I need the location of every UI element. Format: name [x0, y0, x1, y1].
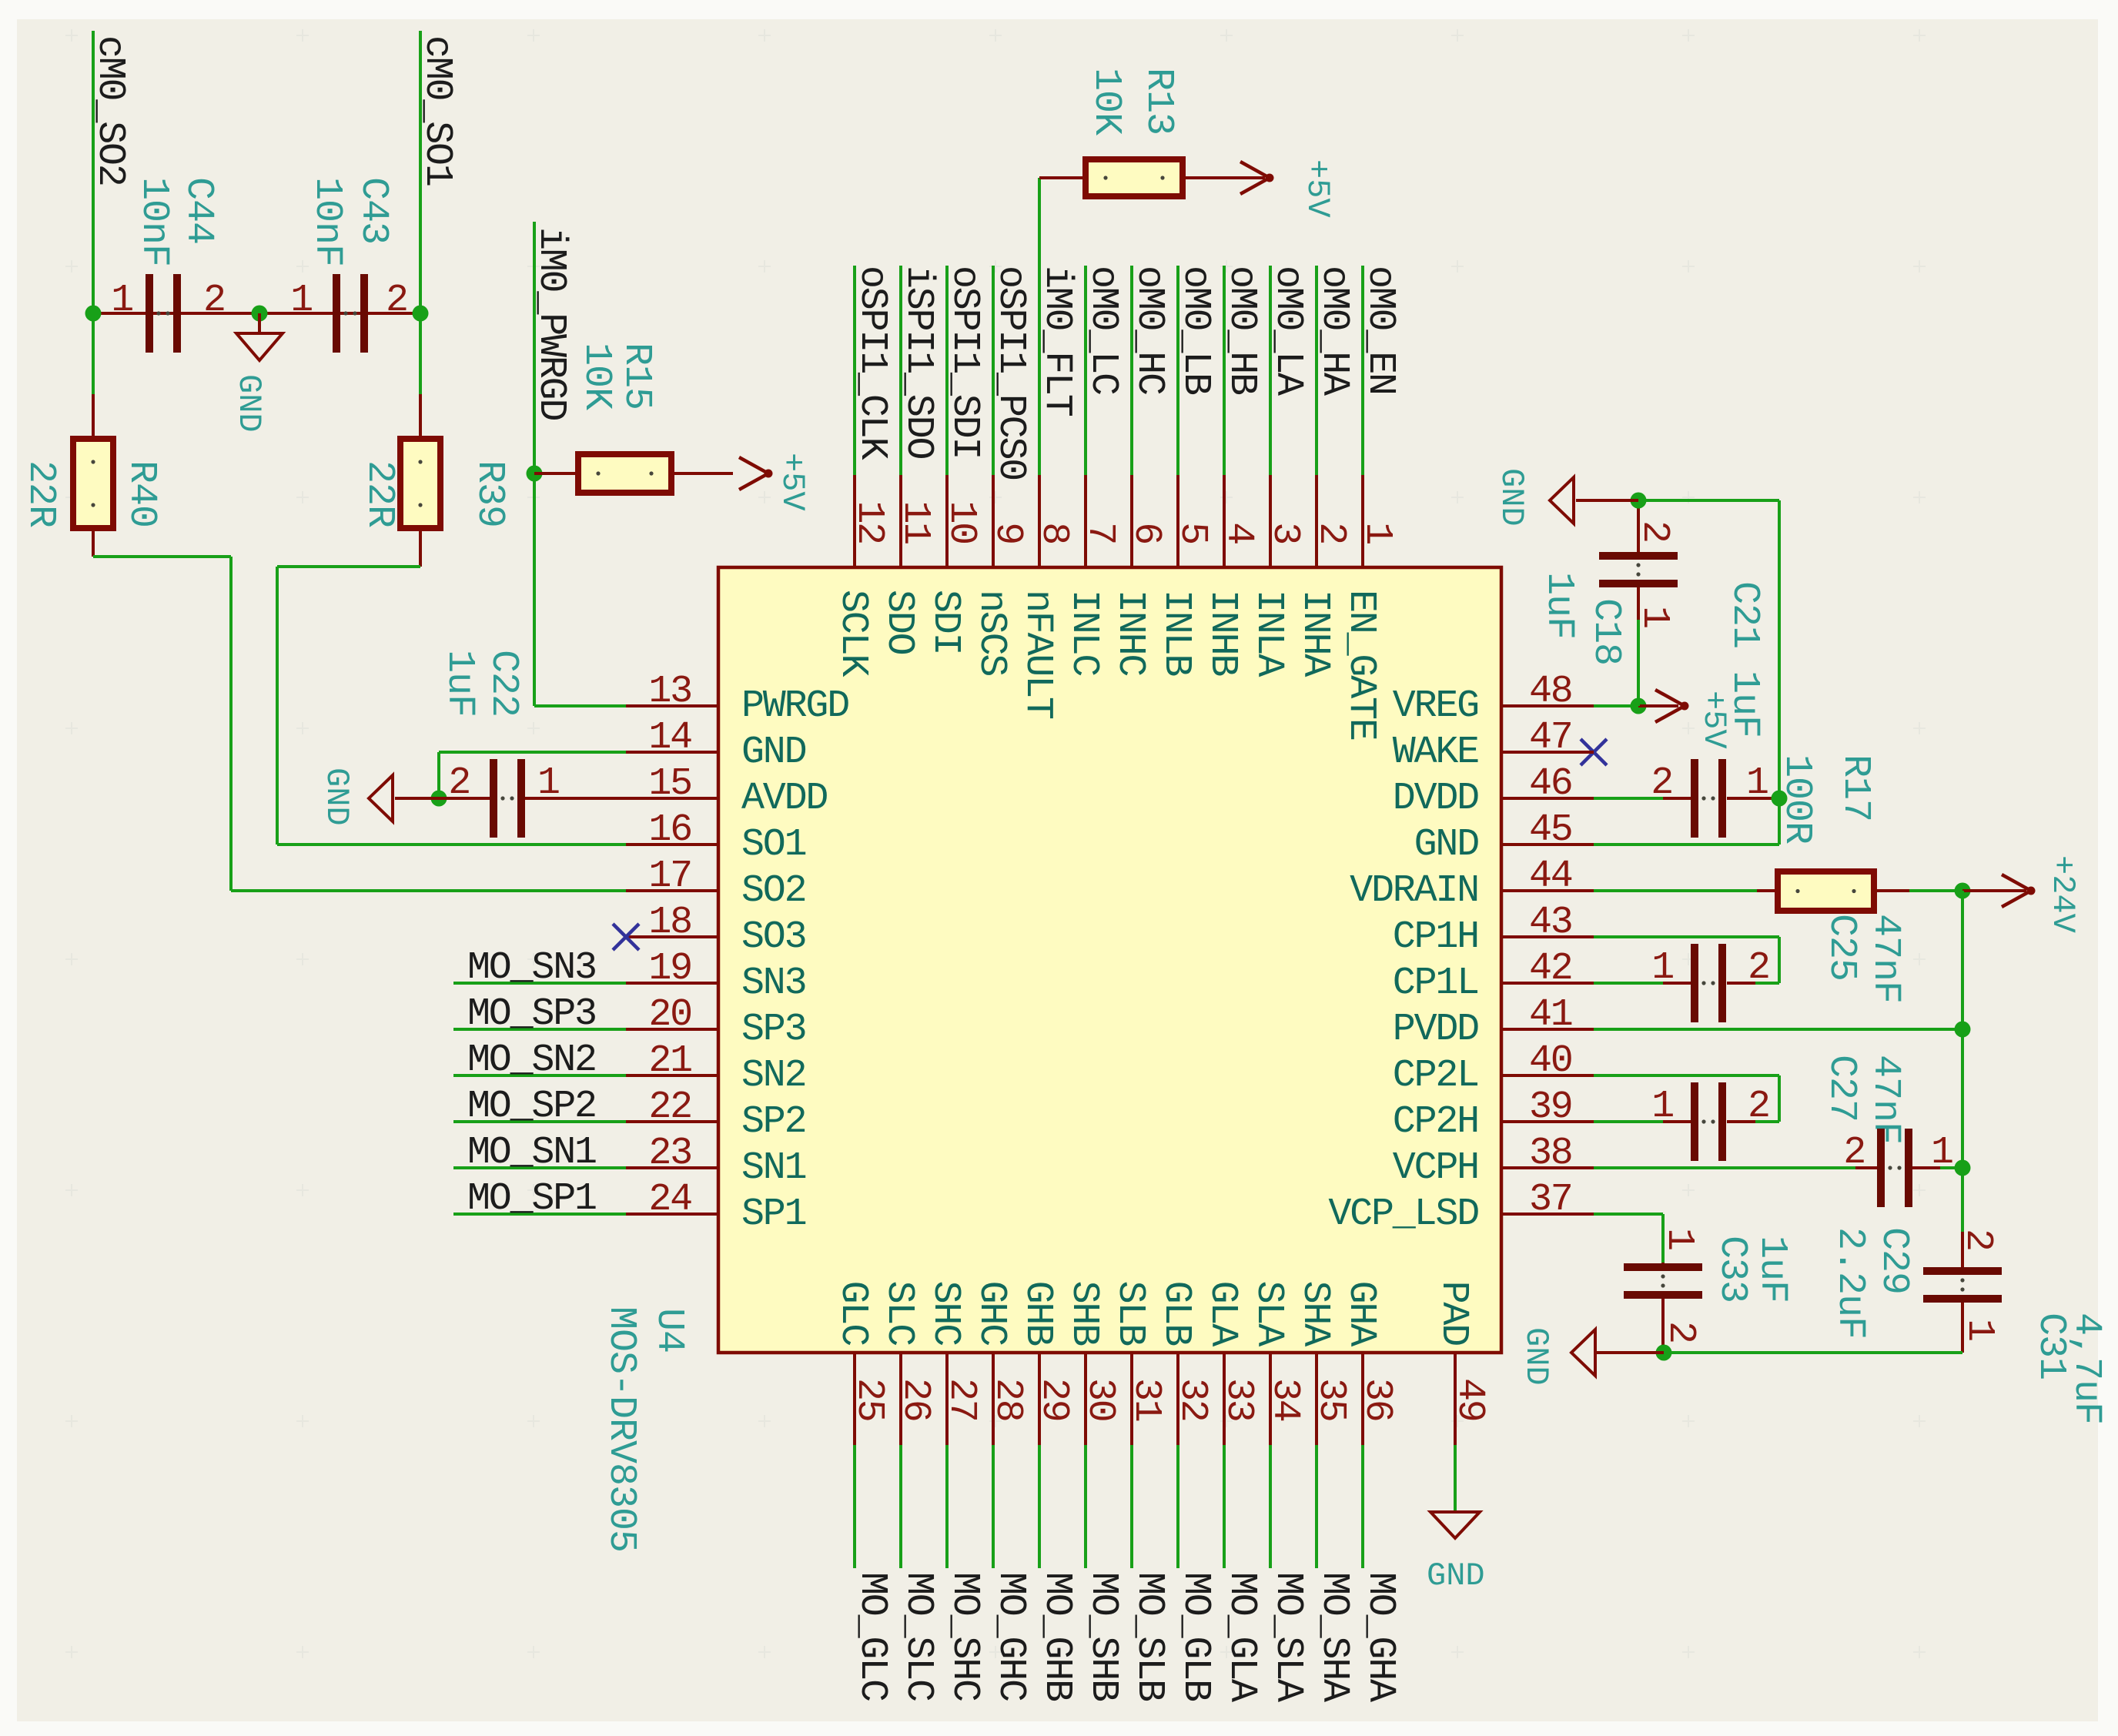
- pin 27 SHC of U4: [923, 1281, 983, 1445]
- svg-text:MO_SN1: MO_SN1: [467, 1131, 596, 1175]
- pin 48 VREG of U4: [1393, 670, 1594, 728]
- wire net MO_SHA to pin 35: [1315, 1445, 1318, 1568]
- svg-text:SO2: SO2: [741, 869, 805, 913]
- svg-text:MO_SLB: MO_SLB: [1127, 1572, 1171, 1701]
- svg-text:R13: R13: [1136, 68, 1180, 135]
- junction GND / C18: [1631, 493, 1647, 509]
- svg-text:2: 2: [1748, 1085, 1769, 1129]
- wire GND rail to pin 45: [1594, 499, 1781, 846]
- pin 46 DVDD of U4: [1393, 762, 1594, 821]
- svg-text:MO_SLA: MO_SLA: [1266, 1572, 1310, 1702]
- pin 19 SN3 of U4: [626, 947, 805, 1005]
- pin 32 GLB of U4: [1154, 1281, 1214, 1445]
- wire net MO_SN1 to pin 23: [453, 1166, 626, 1169]
- svg-text:4,7uF: 4,7uF: [2064, 1313, 2108, 1424]
- svg-text:33: 33: [1216, 1378, 1260, 1421]
- svg-text:CP2L: CP2L: [1393, 1054, 1478, 1098]
- junction C33 / GND rail: [1656, 1345, 1672, 1361]
- svg-text:30: 30: [1078, 1378, 1122, 1421]
- wire pin 44 VDRAIN to R17: [1594, 889, 1757, 892]
- svg-text:24: 24: [648, 1178, 691, 1222]
- svg-text:1: 1: [1632, 606, 1676, 627]
- svg-text:1: 1: [1355, 522, 1399, 544]
- svg-text:1: 1: [290, 279, 312, 323]
- capacitor C43: [333, 274, 368, 353]
- svg-text:MO_GLB: MO_GLB: [1173, 1572, 1217, 1701]
- junction +24V / VDRAIN: [1955, 883, 1971, 899]
- svg-text:C21 1uF: C21 1uF: [1722, 581, 1766, 738]
- wire lead R13 right: [1183, 176, 1265, 179]
- wire net iSPI1_SDO to pin 11: [899, 266, 902, 475]
- pin 25 GLC of U4: [831, 1281, 891, 1445]
- svg-text:100R: 100R: [1775, 754, 1819, 844]
- svg-text:44: 44: [1529, 855, 1572, 898]
- wire lead R17 right: [1874, 889, 1909, 892]
- svg-text:3: 3: [1263, 522, 1307, 544]
- svg-text:10K: 10K: [574, 343, 618, 410]
- svg-text:48: 48: [1529, 670, 1572, 714]
- wire +24V rail down: [1961, 891, 1964, 1232]
- svg-text:VDRAIN: VDRAIN: [1350, 869, 1478, 913]
- svg-text:GND: GND: [1414, 823, 1479, 867]
- svg-text:MO_SP2: MO_SP2: [467, 1085, 596, 1129]
- svg-text:+24V: +24V: [2044, 855, 2081, 933]
- svg-text:C22: C22: [481, 650, 525, 717]
- power symbol +5V at R13: [1240, 159, 1336, 218]
- svg-text:14: 14: [648, 716, 691, 760]
- svg-text:2: 2: [448, 761, 470, 805]
- svg-text:1uF: 1uF: [1750, 1236, 1794, 1303]
- svg-text:C18: C18: [1584, 598, 1628, 665]
- power symbol GND at C22: [318, 768, 439, 826]
- pin 21 SN2 of U4: [626, 1039, 805, 1098]
- capacitor C25: [1594, 944, 1779, 1022]
- svg-text:VREG: VREG: [1393, 684, 1478, 728]
- svg-text:R15: R15: [614, 343, 658, 410]
- wire net oM0_LA to pin 3: [1269, 266, 1272, 475]
- svg-text:SDI: SDI: [923, 590, 967, 654]
- pin 10 SDI of U4: [923, 475, 983, 654]
- wire net MO_GLB to pin 32: [1176, 1445, 1179, 1568]
- junction cM0_SO2 / C44: [85, 306, 102, 322]
- svg-text:SHC: SHC: [923, 1281, 967, 1346]
- pin 16 SO1 of U4: [626, 808, 806, 867]
- pin 24 SP1 of U4: [626, 1178, 806, 1236]
- junction GND / C22: [431, 791, 447, 807]
- svg-text:MO_SHB: MO_SHB: [1081, 1572, 1125, 1701]
- svg-text:iM0_FLT: iM0_FLT: [1035, 266, 1079, 416]
- pin 34 SLA of U4: [1246, 1281, 1307, 1445]
- pin 38 VCPH of U4: [1393, 1132, 1594, 1190]
- pin 22 SP2 of U4: [626, 1085, 805, 1144]
- svg-text:MO_SLC: MO_SLC: [896, 1572, 940, 1701]
- svg-text:SN3: SN3: [741, 962, 805, 1005]
- resistor R39: [400, 439, 440, 528]
- svg-text:PWRGD: PWRGD: [741, 684, 848, 728]
- svg-text:49: 49: [1447, 1378, 1491, 1421]
- svg-text:oM0_HA: oM0_HA: [1312, 266, 1356, 396]
- wire cM0_SO1 vertical: [419, 31, 422, 394]
- svg-text:2.2uF: 2.2uF: [1828, 1227, 1872, 1339]
- junction C44 / C43 / GND: [252, 306, 268, 322]
- svg-text:SLC: SLC: [877, 1281, 921, 1346]
- svg-text:29: 29: [1032, 1378, 1076, 1421]
- pin 17 SO2 of U4: [626, 855, 805, 913]
- pin 29 GHB of U4: [1016, 1281, 1076, 1445]
- svg-text:36: 36: [1355, 1378, 1399, 1421]
- svg-text:34: 34: [1263, 1378, 1307, 1421]
- svg-text:1: 1: [1651, 946, 1673, 990]
- junction +24V rail / PVDD: [1955, 1022, 1971, 1038]
- svg-text:26: 26: [893, 1378, 937, 1421]
- svg-text:INHA: INHA: [1293, 590, 1337, 677]
- svg-text:15: 15: [648, 762, 691, 806]
- wire net oM0_LB to pin 5: [1176, 266, 1179, 475]
- svg-text:19: 19: [648, 947, 691, 991]
- svg-text:oM0_LB: oM0_LB: [1173, 266, 1217, 395]
- wire pin 49 to GND: [1454, 1445, 1457, 1512]
- svg-text:CP2H: CP2H: [1393, 1100, 1478, 1144]
- svg-text:12: 12: [847, 500, 891, 544]
- svg-text:2: 2: [1658, 1321, 1702, 1343]
- svg-text:GND: GND: [230, 374, 267, 433]
- resistor R13: [1086, 159, 1183, 196]
- pin 44 VDRAIN of U4: [1350, 855, 1594, 913]
- svg-text:oSPI1_CLK: oSPI1_CLK: [850, 266, 894, 460]
- svg-text:INLA: INLA: [1246, 590, 1290, 677]
- pin 40 CP2L of U4: [1393, 1039, 1594, 1098]
- svg-text:WAKE: WAKE: [1393, 731, 1478, 774]
- junction iM0_PWRGD / R15: [527, 466, 543, 482]
- svg-text:10nF: 10nF: [305, 177, 349, 266]
- svg-text:1: 1: [537, 761, 559, 805]
- svg-text:SN1: SN1: [741, 1146, 806, 1190]
- wire net MO_SP3 to pin 20: [453, 1028, 626, 1031]
- svg-text:GND: GND: [1427, 1557, 1485, 1594]
- svg-text:SLA: SLA: [1246, 1281, 1290, 1347]
- svg-text:20: 20: [648, 993, 691, 1037]
- pin 47 WAKE of U4: [1393, 716, 1594, 774]
- svg-text:6: 6: [1124, 522, 1168, 544]
- wire net MO_SP2 to pin 22: [453, 1120, 626, 1123]
- svg-text:39: 39: [1529, 1085, 1572, 1129]
- svg-text:2: 2: [386, 279, 407, 323]
- svg-text:+5V: +5V: [774, 453, 811, 511]
- svg-text:GHA: GHA: [1339, 1281, 1383, 1347]
- svg-text:2: 2: [1843, 1131, 1865, 1175]
- svg-text:SP2: SP2: [741, 1100, 805, 1144]
- svg-text:MO_SN2: MO_SN2: [467, 1039, 596, 1082]
- pin 20 SP3 of U4: [626, 993, 805, 1052]
- svg-text:oSPI1_SDI: oSPI1_SDI: [942, 266, 986, 458]
- svg-text:4: 4: [1216, 522, 1260, 544]
- resistor R17: [1778, 871, 1874, 911]
- pin 31 SLB of U4: [1108, 1281, 1168, 1445]
- svg-text:MO_SP3: MO_SP3: [467, 992, 596, 1036]
- power symbol GND at PAD: [1427, 1512, 1485, 1594]
- svg-text:VCPH: VCPH: [1393, 1146, 1478, 1190]
- pin 36 GHA of U4: [1339, 1281, 1399, 1445]
- svg-text:INHB: INHB: [1200, 590, 1244, 676]
- svg-text:C25: C25: [1819, 914, 1863, 981]
- svg-text:PVDD: PVDD: [1393, 1008, 1478, 1052]
- wire net MO_GLC to pin 25: [853, 1445, 856, 1568]
- wire net oM0_EN to pin 1: [1361, 266, 1364, 475]
- svg-text:GHC: GHC: [969, 1281, 1013, 1346]
- capacitor C31: [1923, 1168, 2002, 1353]
- svg-text:2: 2: [1748, 946, 1769, 990]
- svg-text:18: 18: [648, 901, 691, 945]
- svg-text:MO_SHA: MO_SHA: [1312, 1572, 1356, 1702]
- power symbol +24V: [1962, 855, 2081, 933]
- IC U4 MOS-DRV8305 body: [718, 567, 1501, 1353]
- svg-text:CP1L: CP1L: [1393, 962, 1478, 1005]
- svg-text:CP1H: CP1H: [1393, 915, 1478, 959]
- resistor R40: [73, 439, 113, 528]
- svg-text:EN_GATE: EN_GATE: [1339, 590, 1383, 740]
- svg-text:1uF: 1uF: [1537, 572, 1581, 639]
- svg-text:MO_SN3: MO_SN3: [467, 946, 596, 990]
- svg-text:GHB: GHB: [1016, 1281, 1059, 1346]
- pin 7 INLC of U4: [1062, 475, 1122, 675]
- svg-text:46: 46: [1529, 762, 1572, 806]
- svg-text:C44: C44: [176, 177, 220, 244]
- capacitor C29: [1594, 1129, 1962, 1207]
- svg-text:U4: U4: [647, 1308, 691, 1353]
- svg-text:47nF: 47nF: [1863, 914, 1907, 1003]
- svg-text:oM0_HC: oM0_HC: [1127, 266, 1171, 394]
- capacitor C21: [1594, 759, 1779, 838]
- wire net MO_SLC to pin 26: [899, 1445, 902, 1568]
- svg-text:VCP_LSD: VCP_LSD: [1328, 1192, 1478, 1236]
- pin 1 EN_GATE of U4: [1339, 475, 1399, 740]
- svg-text:MO_SHC: MO_SHC: [942, 1572, 986, 1701]
- svg-text:13: 13: [648, 670, 691, 714]
- pin 23 SN1 of U4: [626, 1132, 806, 1190]
- svg-text:28: 28: [985, 1378, 1029, 1421]
- pin 43 CP1H of U4: [1393, 901, 1594, 959]
- svg-text:GND: GND: [1493, 468, 1530, 527]
- svg-text:MO_GHB: MO_GHB: [1035, 1572, 1079, 1701]
- svg-text:+5V: +5V: [1299, 159, 1336, 218]
- svg-text:10: 10: [939, 500, 983, 544]
- wire net oM0_LC to pin 7: [1084, 266, 1087, 475]
- svg-text:2: 2: [1309, 522, 1353, 544]
- wire net MO_SHC to pin 27: [945, 1445, 949, 1568]
- svg-text:AVDD: AVDD: [741, 777, 827, 821]
- pin 33 GLA of U4: [1200, 1281, 1260, 1445]
- wire net MO_GHA to pin 36: [1361, 1445, 1364, 1568]
- wire R40 to pin 17 SO2: [92, 528, 626, 892]
- svg-text:GLB: GLB: [1154, 1281, 1198, 1346]
- wire capacitor row: [93, 312, 420, 315]
- svg-text:1: 1: [1651, 1085, 1673, 1129]
- svg-text:SO1: SO1: [741, 823, 806, 867]
- svg-text:35: 35: [1309, 1378, 1353, 1421]
- svg-text:INHC: INHC: [1108, 590, 1152, 675]
- svg-text:32: 32: [1170, 1378, 1214, 1421]
- svg-text:31: 31: [1124, 1378, 1168, 1421]
- junction VREG / C18: [1631, 698, 1647, 714]
- wire net oM0_HA to pin 2: [1315, 266, 1318, 475]
- wire pin 40 CP2L elbow: [1594, 1074, 1781, 1122]
- svg-text:MO_GLC: MO_GLC: [850, 1572, 894, 1701]
- svg-text:nSCS: nSCS: [969, 590, 1013, 675]
- wire net MO_GHB to pin 29: [1038, 1445, 1041, 1568]
- svg-text:47nF: 47nF: [1863, 1055, 1907, 1144]
- power symbol +5V at VREG: [1638, 690, 1732, 749]
- power symbol GND below C44/C43: [230, 313, 283, 433]
- wire lead to R40: [92, 394, 95, 439]
- svg-text:SHA: SHA: [1293, 1281, 1337, 1347]
- svg-text:22: 22: [648, 1085, 691, 1129]
- wire net MO_SP1 to pin 24: [453, 1213, 626, 1216]
- svg-text:GLA: GLA: [1200, 1281, 1244, 1347]
- pin 41 PVDD of U4: [1393, 993, 1594, 1052]
- svg-text:GND: GND: [741, 731, 806, 774]
- svg-text:C33: C33: [1710, 1236, 1754, 1303]
- svg-text:SP3: SP3: [741, 1008, 805, 1052]
- svg-text:1uF: 1uF: [437, 650, 481, 717]
- pin 4 INHB of U4: [1200, 475, 1260, 676]
- svg-text:DVDD: DVDD: [1393, 777, 1478, 821]
- svg-text:MO_GLA: MO_GLA: [1220, 1572, 1263, 1702]
- svg-text:SO3: SO3: [741, 915, 805, 959]
- wire lead R13 left: [1039, 176, 1086, 179]
- capacitor C18: [1599, 500, 1678, 706]
- wire net MO_SN2 to pin 21: [453, 1074, 626, 1077]
- pin 45 GND of U4: [1414, 808, 1594, 867]
- wire net MO_SN3 to pin 19: [453, 982, 626, 985]
- svg-text:GND: GND: [318, 768, 355, 826]
- junction C21 / GND rail: [1772, 791, 1788, 807]
- pin 3 INLA of U4: [1246, 475, 1307, 677]
- svg-text:22R: 22R: [357, 460, 401, 527]
- svg-text:37: 37: [1529, 1178, 1572, 1222]
- svg-text:42: 42: [1529, 947, 1572, 991]
- capacitor C44: [146, 274, 181, 353]
- wire pin 48 VREG to +5V: [1594, 704, 1638, 707]
- wire net iM0_FLT to pin 8 and R13: [1038, 178, 1041, 475]
- power symbol GND top right: [1493, 468, 1638, 527]
- power symbol GND bottom right: [1517, 1327, 1664, 1386]
- svg-text:nFAULT: nFAULT: [1016, 590, 1059, 719]
- pin 42 CP1L of U4: [1393, 947, 1594, 1005]
- svg-text:8: 8: [1032, 522, 1076, 544]
- svg-text:MOS-DRV8305: MOS-DRV8305: [599, 1306, 643, 1552]
- svg-text:PAD: PAD: [1431, 1281, 1475, 1346]
- svg-text:47: 47: [1529, 716, 1572, 760]
- svg-text:MO_GHA: MO_GHA: [1358, 1572, 1402, 1702]
- svg-text:SDO: SDO: [877, 590, 921, 654]
- svg-text:10nF: 10nF: [132, 177, 176, 266]
- svg-text:23: 23: [648, 1132, 691, 1176]
- wire net oSPI1_CLK to pin 12: [853, 266, 856, 475]
- wire pin 41 PVDD to rail: [1594, 1028, 1962, 1031]
- wire R17 to +24V junction: [1909, 889, 1962, 892]
- svg-text:2: 2: [203, 279, 225, 323]
- svg-text:41: 41: [1529, 993, 1572, 1037]
- pin 13 PWRGD of U4: [626, 670, 848, 728]
- svg-text:10K: 10K: [1084, 68, 1128, 135]
- pin 12 SCLK of U4: [831, 475, 891, 677]
- svg-text:SLB: SLB: [1108, 1281, 1152, 1346]
- svg-text:GLC: GLC: [831, 1281, 875, 1346]
- wire lead R15 right: [671, 472, 733, 475]
- svg-text:2: 2: [1956, 1229, 1999, 1250]
- svg-text:5: 5: [1170, 522, 1214, 544]
- pin 2 INHA of U4: [1293, 475, 1353, 677]
- wire pin 14 GND to junction: [437, 751, 626, 798]
- svg-text:2: 2: [1651, 761, 1672, 805]
- pin 8 nFAULT of U4: [1016, 475, 1076, 719]
- pin 5 INLB of U4: [1154, 475, 1214, 676]
- svg-text:GND: GND: [1517, 1327, 1554, 1386]
- svg-text:oM0_LC: oM0_LC: [1081, 266, 1125, 394]
- pin 26 SLC of U4: [877, 1281, 937, 1445]
- wire lead to R39: [419, 394, 422, 439]
- svg-text:oM0_EN: oM0_EN: [1358, 266, 1402, 394]
- wire lead R17 left: [1757, 889, 1778, 892]
- svg-text:R17: R17: [1833, 754, 1877, 821]
- wire net MO_SHB to pin 30: [1084, 1445, 1087, 1568]
- svg-text:1: 1: [1746, 761, 1768, 805]
- junction C43 / cM0_SO1: [413, 306, 429, 322]
- svg-text:43: 43: [1529, 901, 1572, 945]
- wire net oM0_HC to pin 6: [1130, 266, 1133, 475]
- svg-text:9: 9: [985, 522, 1029, 544]
- pin 37 VCP_LSD of U4: [1328, 1178, 1594, 1236]
- svg-text:R39: R39: [467, 460, 511, 527]
- pin 30 SHB of U4: [1062, 1281, 1122, 1445]
- capacitor C27: [1594, 1082, 1779, 1161]
- svg-text:1: 1: [1657, 1228, 1701, 1249]
- svg-text:SP1: SP1: [741, 1192, 806, 1236]
- svg-text:40: 40: [1529, 1039, 1572, 1083]
- svg-text:7: 7: [1078, 522, 1122, 544]
- svg-text:22R: 22R: [18, 460, 62, 527]
- wire cM0_SO2 vertical: [92, 31, 95, 394]
- pin 28 GHC of U4: [969, 1281, 1029, 1445]
- svg-text:MO_SP1: MO_SP1: [467, 1177, 596, 1221]
- resistor R15: [578, 454, 671, 493]
- svg-text:iSPI1_SDO: iSPI1_SDO: [896, 266, 940, 458]
- svg-text:MO_GHC: MO_GHC: [989, 1572, 1032, 1701]
- wire net oM0_HB to pin 4: [1223, 266, 1226, 475]
- wire net oSPI1_PCS0 to pin 9: [992, 266, 995, 475]
- svg-text:INLC: INLC: [1062, 590, 1106, 675]
- no-connect mark at pin 47 WAKE: [1581, 739, 1607, 765]
- capacitor C22: [439, 759, 626, 838]
- pin 39 CP2H of U4: [1393, 1085, 1594, 1144]
- pin 35 SHA of U4: [1293, 1281, 1353, 1445]
- wire net MO_GHC to pin 28: [992, 1445, 995, 1568]
- svg-text:45: 45: [1529, 808, 1572, 852]
- junction +24V rail / C29: [1955, 1160, 1971, 1176]
- wire net MO_GLA to pin 33: [1223, 1445, 1226, 1568]
- wire R39 to pin 16 SO1: [276, 528, 626, 846]
- svg-text:1: 1: [1957, 1319, 2001, 1340]
- wire net oSPI1_SDI to pin 10: [945, 266, 949, 475]
- svg-text:27: 27: [939, 1378, 983, 1421]
- power symbol +5V at R15: [739, 453, 811, 511]
- svg-text:R40: R40: [119, 460, 163, 527]
- wire pin 43 CP1H elbow: [1594, 935, 1781, 983]
- no-connect mark at pin 18 SO3: [613, 924, 639, 950]
- svg-text:25: 25: [847, 1378, 891, 1421]
- svg-text:11: 11: [893, 500, 937, 544]
- pin 18 SO3 of U4: [626, 901, 805, 959]
